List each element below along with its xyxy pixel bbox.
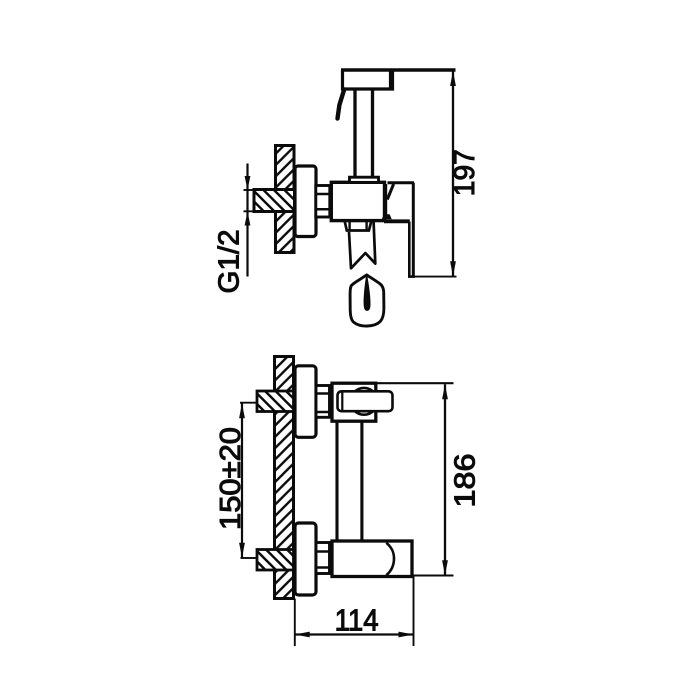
vertical pipe between connectors bbox=[337, 422, 362, 542]
top hex nut flats bbox=[316, 394, 330, 413]
G1/2 arrow down bbox=[245, 176, 251, 190]
bottom escutcheon flange bbox=[295, 523, 316, 595]
escutcheon flange bbox=[295, 166, 316, 237]
G1/2 supply pipe through wall (hatched) bbox=[254, 190, 295, 212]
svg-text:150±20: 150±20 bbox=[215, 427, 247, 530]
G1/2 arrow up bbox=[245, 212, 251, 226]
197 dimension line bbox=[452, 71, 454, 277]
186 extension line top bbox=[376, 382, 454, 384]
top supply stub (hatched) bbox=[257, 391, 294, 412]
connection circle bbox=[351, 388, 378, 415]
G1/2 extension line top bbox=[244, 189, 260, 191]
150±20 extension line bottom bbox=[241, 557, 257, 559]
handle top edge bbox=[388, 181, 415, 184]
114 arrow left bbox=[295, 632, 310, 638]
bottom connector body bbox=[332, 541, 412, 577]
spray holder top line / extension line for 197 bbox=[341, 68, 456, 71]
valve body bbox=[331, 182, 384, 220]
bottom connector cap arc bbox=[386, 543, 394, 576]
spray holder box right edge bbox=[389, 71, 393, 88]
band left cap line bbox=[341, 393, 343, 411]
collar under riser pipe bbox=[350, 177, 379, 182]
197 arrow down bbox=[450, 261, 456, 276]
water drop / spray blob bbox=[350, 275, 384, 326]
wall (hatched section, side view) bbox=[276, 146, 295, 253]
handle inner edge bbox=[408, 222, 411, 278]
handle right edge bbox=[412, 183, 415, 277]
bottom hex nut bbox=[316, 543, 330, 574]
top hex nut bbox=[316, 386, 330, 418]
186 arrow down bbox=[442, 560, 448, 575]
spray nozzle lever bbox=[338, 90, 345, 119]
svg-text:197: 197 bbox=[449, 149, 481, 196]
outlet spout tip (V flag) bbox=[349, 222, 375, 268]
svg-text:114: 114 bbox=[335, 604, 379, 638]
horizontal band through circle bbox=[338, 391, 393, 411]
bottom hex nut flats bbox=[316, 552, 330, 568]
handle bottom edge bbox=[408, 275, 415, 278]
bottom supply stub (hatched) bbox=[257, 550, 294, 571]
riser pipe to spray holder bbox=[355, 89, 373, 178]
G1/2 dimension line bbox=[246, 164, 248, 277]
G1/2 extension line bottom bbox=[244, 210, 260, 212]
hex nut flats bbox=[316, 194, 330, 209]
svg-text:186: 186 bbox=[450, 454, 482, 508]
body right edge thickening bbox=[384, 184, 387, 219]
186 extension line bottom bbox=[411, 575, 454, 577]
spray holder box bbox=[343, 70, 393, 89]
svg-text:G1/2: G1/2 bbox=[214, 230, 246, 294]
114 extension line left bbox=[294, 599, 296, 647]
body bottom line under handle bbox=[384, 219, 410, 223]
wall (hatched strip, front view) bbox=[275, 357, 294, 599]
hex nut bbox=[316, 186, 330, 218]
186 dimension line bbox=[444, 384, 446, 575]
150±20 dimension line bbox=[241, 403, 243, 558]
114 dimension line bbox=[295, 633, 414, 635]
top escutcheon flange bbox=[295, 366, 316, 438]
186 arrow up bbox=[442, 384, 448, 399]
197 extension line bottom bbox=[415, 276, 457, 278]
top connector body bbox=[332, 383, 376, 421]
handle junction blob bbox=[382, 214, 392, 219]
drop core (filled teardrop) bbox=[364, 276, 371, 311]
handle pivot diagonal bbox=[387, 184, 393, 200]
114 extension line right bbox=[413, 576, 415, 647]
outlet nut facets bbox=[350, 222, 367, 231]
150±20 extension line top bbox=[240, 402, 258, 404]
150±20 arrow down bbox=[239, 543, 245, 558]
outlet nut bbox=[345, 222, 371, 231]
114 arrow right bbox=[399, 632, 414, 638]
150±20 arrow up bbox=[239, 403, 245, 418]
197 arrow up bbox=[450, 71, 456, 86]
